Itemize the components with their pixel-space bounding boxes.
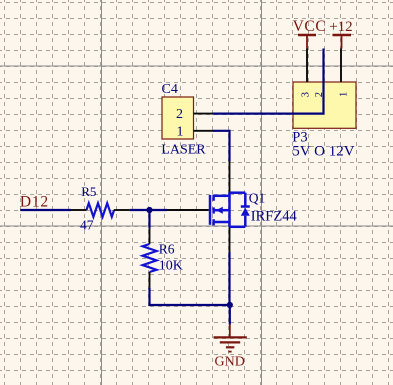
transistor Q1 symbol (210, 193, 250, 227)
svg-text:GND: GND (215, 355, 245, 370)
svg-text:3: 3 (301, 92, 312, 97)
resistor R6 (143, 228, 157, 287)
svg-text:1: 1 (177, 124, 184, 139)
power port +12 (329, 19, 352, 49)
connector C4 body (162, 97, 194, 139)
svg-text:+12: +12 (329, 19, 352, 35)
P3 pin 2 (323, 49, 325, 82)
svg-text:VCC: VCC (293, 18, 327, 35)
wire C4 pin1 to Q1 drain (213, 131, 230, 161)
transistor Q1 drain pin (229, 161, 231, 195)
C4 pin 1 (194, 130, 214, 132)
Q1 substrate arrow (216, 207, 223, 214)
svg-text:LASER: LASER (161, 142, 206, 157)
transistor Q1 gate pin (167, 209, 209, 211)
wire D12 to R5 (20, 209, 71, 211)
C4 pin 2 (194, 113, 214, 115)
wire C4 pin2 to P3 pin2 (213, 49, 324, 114)
connector P3 body (293, 82, 356, 128)
svg-text:D12: D12 (20, 193, 49, 210)
P3 pin 3 (306, 49, 308, 83)
svg-text:R6: R6 (159, 241, 175, 256)
ground GND (214, 325, 247, 352)
P3 pin 1 (340, 49, 342, 83)
junction at ground node (227, 302, 233, 308)
svg-text:R5: R5 (81, 184, 96, 199)
svg-text:47: 47 (80, 217, 94, 232)
wire junction to ground symbol (229, 305, 231, 325)
resistor R5 (71, 203, 130, 217)
wire junction down to R6 (148, 210, 150, 228)
wire junction to Q1 gate (150, 209, 168, 211)
svg-text:1: 1 (338, 92, 349, 97)
transistor Q1 source pin (229, 226, 231, 252)
wire R5 to junction (130, 209, 150, 211)
wire Q1 source down (228, 252, 230, 305)
power port VCC (293, 18, 327, 49)
wire R6 bottom to ground junction (150, 288, 230, 305)
svg-text:10K: 10K (159, 258, 183, 273)
Q1 body diode triangle (241, 208, 250, 216)
svg-text:Q1: Q1 (249, 190, 265, 205)
svg-text:5V O 12V: 5V O 12V (292, 144, 354, 160)
svg-text:IRFZ44: IRFZ44 (251, 209, 298, 225)
svg-text:2: 2 (176, 107, 183, 122)
junction at R5/R6/gate node (146, 207, 152, 213)
svg-text:C4: C4 (162, 82, 178, 97)
